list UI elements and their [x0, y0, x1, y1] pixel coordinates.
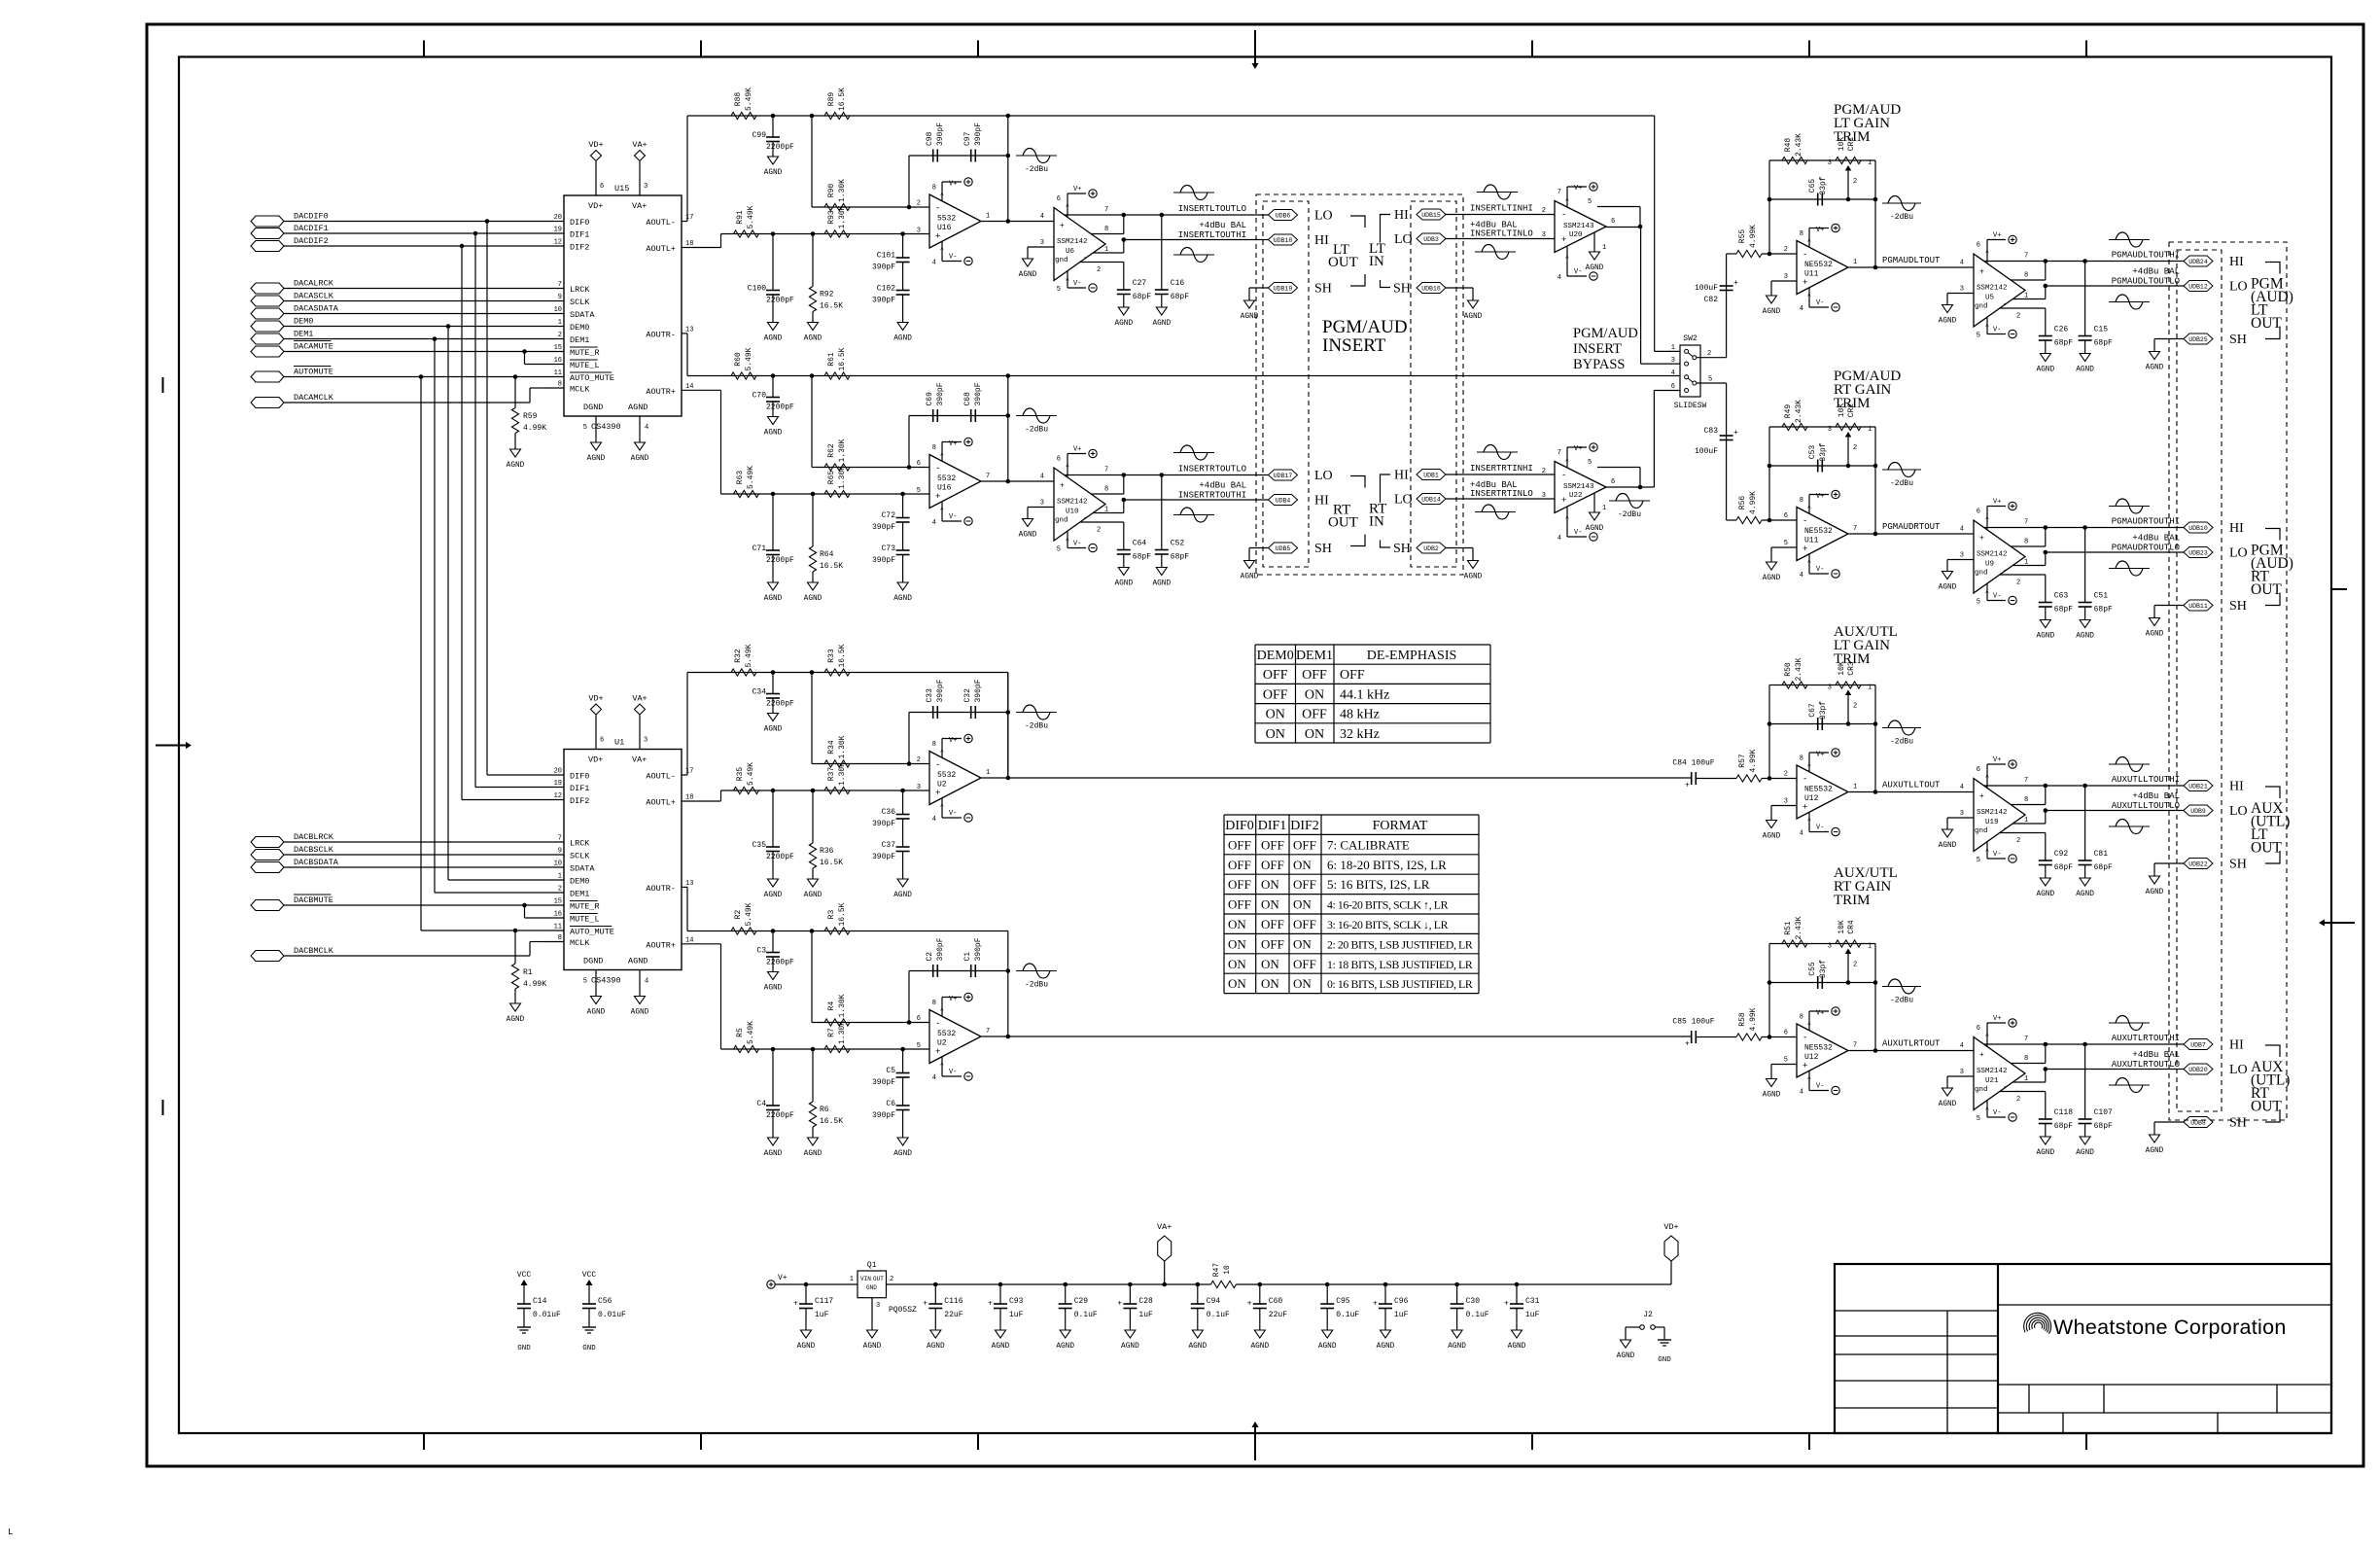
svg-text:R32: R32 [734, 649, 743, 663]
svg-text:4.99K: 4.99K [1749, 749, 1758, 772]
svg-text:2: 20 BITS, LSB JUSTIFIED, LR: 2: 20 BITS, LSB JUSTIFIED, LR [1327, 937, 1473, 951]
svg-text:V+: V+ [949, 181, 957, 189]
svg-text:6: 6 [1611, 218, 1615, 226]
svg-text:AUXUTLLTOUT: AUXUTLLTOUT [1882, 781, 1941, 790]
svg-text:0.1uF: 0.1uF [1336, 1311, 1359, 1319]
svg-text:15: 15 [554, 344, 562, 352]
svg-text:3: 3 [1040, 239, 1044, 247]
svg-text:DEM0: DEM0 [570, 323, 589, 333]
svg-text:C2: C2 [926, 952, 934, 962]
svg-text:2200pF: 2200pF [766, 143, 794, 152]
svg-text:390pF: 390pF [872, 523, 895, 532]
svg-text:+: + [1373, 1300, 1378, 1309]
svg-text:-: - [1802, 516, 1807, 526]
svg-text:PGMAUDRTOUT: PGMAUDRTOUT [1882, 522, 1941, 532]
svg-text:BYPASS: BYPASS [1573, 357, 1625, 372]
svg-text:V-: V- [1993, 851, 2001, 859]
svg-text:+: + [1979, 792, 1984, 801]
svg-text:+4dBu BAL: +4dBu BAL [2132, 534, 2180, 544]
svg-text:68pF: 68pF [1133, 293, 1151, 301]
svg-text:PGM/AUD: PGM/AUD [1322, 317, 1408, 337]
svg-text:+4dBu BAL: +4dBu BAL [1199, 221, 1246, 230]
svg-text:AGND: AGND [893, 335, 912, 343]
svg-text:5.49K: 5.49K [747, 466, 755, 489]
svg-text:AGND: AGND [893, 1150, 912, 1158]
svg-text:DEM1: DEM1 [294, 330, 313, 339]
svg-text:C64: C64 [1133, 540, 1147, 548]
svg-text:19: 19 [554, 227, 562, 234]
svg-text:6: 6 [1977, 509, 1980, 516]
svg-text:OFF: OFF [1228, 858, 1251, 872]
svg-text:>: > [1984, 1033, 1991, 1036]
svg-text:390pF: 390pF [974, 382, 983, 405]
svg-text:11: 11 [554, 924, 562, 931]
svg-text:AOUTL+: AOUTL+ [646, 798, 676, 808]
svg-text:OUT: OUT [873, 1276, 884, 1282]
svg-text:1uF: 1uF [815, 1311, 829, 1319]
svg-text:SCLK: SCLK [570, 298, 590, 307]
svg-text:UDB7: UDB7 [2190, 1042, 2206, 1049]
svg-text:-: - [1561, 471, 1566, 480]
svg-text:6: 6 [917, 460, 921, 468]
svg-text:OFF: OFF [1261, 858, 1284, 872]
svg-text:8: 8 [1800, 497, 1803, 505]
svg-text:INSERTRTINHI: INSERTRTINHI [1470, 464, 1533, 474]
svg-text:8: 8 [2024, 796, 2028, 804]
svg-text:AGND: AGND [804, 892, 822, 899]
svg-text:INSERTRTINLO: INSERTRTINLO [1470, 489, 1533, 499]
svg-text:OFF: OFF [1228, 837, 1251, 852]
svg-text:AGND: AGND [1241, 574, 1259, 581]
svg-text:AGND: AGND [587, 1009, 606, 1017]
svg-text:VA+: VA+ [632, 201, 647, 211]
svg-text:C85 100uF: C85 100uF [1672, 1018, 1714, 1027]
svg-text:CR1: CR1 [1847, 137, 1856, 152]
svg-text:>: > [1806, 1022, 1813, 1026]
svg-text:AGND: AGND [1250, 1343, 1269, 1351]
svg-text:2: 2 [2016, 313, 2020, 321]
svg-text:-2dBu: -2dBu [1025, 165, 1048, 174]
svg-text:AGND: AGND [2076, 891, 2094, 898]
svg-text:AGND: AGND [2146, 889, 2164, 896]
svg-text:7: 7 [558, 281, 562, 289]
svg-text:UDB15: UDB15 [1421, 212, 1441, 219]
svg-text:C56: C56 [598, 1297, 612, 1306]
svg-text:>: > [1564, 255, 1571, 259]
svg-text:-2dBu: -2dBu [1025, 722, 1048, 731]
svg-text:R35: R35 [736, 767, 745, 782]
svg-text:R6: R6 [820, 1106, 829, 1114]
svg-text:390pF: 390pF [872, 263, 895, 272]
svg-text:R89: R89 [827, 92, 836, 107]
svg-text:U10: U10 [1066, 509, 1079, 516]
svg-text:AGND: AGND [2146, 1147, 2164, 1155]
svg-text:AOUTL+: AOUTL+ [646, 244, 676, 254]
svg-text:DGND: DGND [583, 403, 603, 412]
svg-text:1: 1 [1104, 507, 1108, 514]
svg-text:3: 3 [1960, 286, 1964, 294]
svg-text:UDB23: UDB23 [2188, 550, 2208, 557]
svg-text:>: > [1065, 464, 1071, 468]
svg-text:UDB14: UDB14 [1421, 497, 1441, 504]
svg-text:C73: C73 [882, 544, 896, 553]
svg-text:-: - [2003, 1083, 2008, 1092]
svg-text:3: 3 [1784, 273, 1788, 281]
svg-text:AGND: AGND [507, 1016, 525, 1024]
svg-text:+: + [1979, 1051, 1984, 1060]
svg-text:OFF: OFF [1228, 877, 1251, 892]
svg-text:16.5K: 16.5K [820, 562, 843, 571]
svg-text:22uF: 22uF [1269, 1311, 1287, 1319]
svg-text:5: 5 [1977, 857, 1980, 864]
svg-text:OFF: OFF [1293, 877, 1316, 892]
svg-text:>: > [1984, 774, 1991, 778]
svg-text:HI: HI [1394, 469, 1409, 483]
svg-text:>: > [1564, 515, 1571, 519]
svg-text:+: + [1802, 278, 1807, 288]
svg-text:2: 2 [1542, 207, 1546, 215]
svg-text:2: 2 [2016, 1096, 2020, 1104]
svg-text:2: 2 [917, 756, 921, 764]
svg-text:AGND: AGND [2036, 367, 2054, 374]
svg-text:UDB1: UDB1 [1423, 473, 1439, 479]
svg-text:C37: C37 [882, 841, 896, 850]
svg-text:1: 1 [850, 1276, 854, 1283]
svg-text:HI: HI [2229, 780, 2244, 794]
svg-text:100uF: 100uF [1695, 447, 1718, 456]
svg-text:DIF2: DIF2 [570, 796, 589, 806]
svg-text:OFF: OFF [1293, 837, 1316, 852]
svg-text:INSERTLTINHI: INSERTLTINHI [1470, 204, 1533, 214]
svg-text:10: 10 [554, 860, 562, 868]
svg-text:V+: V+ [1073, 186, 1081, 193]
svg-text:0.1uF: 0.1uF [1466, 1311, 1489, 1319]
svg-text:SCLK: SCLK [570, 852, 590, 861]
svg-text:16.5K: 16.5K [820, 859, 843, 867]
svg-text:VD+: VD+ [588, 140, 603, 150]
svg-text:5: 5 [1977, 599, 1980, 607]
svg-text:-2dBu: -2dBu [1890, 738, 1913, 747]
svg-text:AGND: AGND [628, 403, 647, 412]
svg-text:OFF: OFF [1340, 668, 1365, 683]
svg-text:3: 3 [917, 228, 921, 235]
svg-text:LRCK: LRCK [570, 839, 590, 849]
svg-text:INSERTLTOUTHI: INSERTLTOUTHI [1178, 230, 1246, 240]
svg-text:390pF: 390pF [936, 123, 945, 146]
svg-text:68pF: 68pF [2054, 339, 2073, 348]
svg-text:-: - [935, 464, 940, 474]
svg-text:>: > [1806, 818, 1813, 822]
svg-text:>: > [939, 507, 946, 510]
svg-text:>: > [939, 803, 946, 807]
svg-text:C72: C72 [882, 511, 896, 520]
svg-text:DIF1: DIF1 [1258, 819, 1287, 833]
svg-text:OFF: OFF [1261, 837, 1284, 852]
svg-text:3: 3 [1542, 231, 1546, 239]
svg-text:AGND: AGND [1114, 320, 1133, 328]
svg-text:ON: ON [1293, 858, 1312, 872]
svg-text:4: 4 [1040, 213, 1044, 221]
svg-text:C98: C98 [926, 131, 934, 146]
svg-text:V-: V- [1993, 1109, 2001, 1117]
svg-text:+: + [1060, 222, 1065, 230]
svg-text:C118: C118 [2054, 1108, 2073, 1117]
svg-text:68pF: 68pF [1171, 553, 1189, 562]
svg-text:R93: R93 [827, 210, 836, 225]
svg-text:8: 8 [2024, 272, 2028, 280]
svg-text:SH: SH [2229, 1116, 2247, 1131]
svg-text:7: 7 [1104, 206, 1108, 214]
svg-text:2: 2 [1707, 350, 1711, 358]
svg-text:16.5K: 16.5K [838, 88, 847, 111]
svg-text:9: 9 [558, 294, 562, 301]
svg-text:8: 8 [558, 381, 562, 389]
svg-text:8: 8 [2024, 1055, 2028, 1063]
svg-text:2.43K: 2.43K [1795, 400, 1803, 423]
svg-text:C4: C4 [756, 1100, 766, 1108]
svg-text:U2: U2 [937, 1039, 947, 1048]
svg-text:5: 5 [1977, 333, 1980, 340]
svg-text:11: 11 [554, 369, 562, 377]
svg-text:AGND: AGND [587, 455, 606, 463]
svg-text:ON: ON [1293, 897, 1312, 912]
svg-text:V-: V- [1574, 268, 1582, 276]
svg-text:R33: R33 [827, 649, 836, 663]
svg-text:OFF: OFF [1263, 668, 1288, 683]
svg-text:390pF: 390pF [872, 556, 895, 565]
svg-text:AUTOMUTE: AUTOMUTE [294, 368, 333, 377]
svg-text:-: - [2003, 567, 2008, 576]
svg-text:10: 10 [1223, 1265, 1232, 1275]
svg-text:SSM2143: SSM2143 [1563, 483, 1594, 491]
svg-text:>: > [1984, 324, 1991, 328]
svg-text:VA+: VA+ [1157, 1222, 1172, 1232]
svg-text:>: > [1564, 458, 1571, 462]
svg-text:+: + [1802, 1062, 1807, 1071]
svg-text:16: 16 [554, 357, 562, 365]
svg-text:10: 10 [554, 306, 562, 314]
svg-text:3: 3 [1671, 357, 1675, 365]
svg-text:UDB21: UDB21 [2188, 784, 2208, 790]
svg-text:Q1: Q1 [867, 1261, 877, 1270]
svg-text:UDB8: UDB8 [2190, 1120, 2206, 1127]
svg-text:4: 4 [1960, 260, 1964, 267]
svg-text:6: 6 [600, 183, 604, 191]
svg-text:VCC: VCC [517, 1271, 532, 1280]
svg-text:DIF0: DIF0 [570, 772, 589, 782]
svg-text:C14: C14 [533, 1297, 547, 1306]
svg-text:1.30K: 1.30K [838, 179, 847, 202]
svg-text:R37: R37 [827, 767, 836, 782]
svg-text:AGND: AGND [2146, 631, 2164, 639]
svg-text:3: 3 [1828, 426, 1832, 434]
svg-text:AGND: AGND [1939, 1101, 1957, 1108]
svg-text:2200pF: 2200pF [766, 1111, 794, 1120]
svg-text:3: 3 [876, 1302, 880, 1310]
svg-text:8: 8 [1104, 226, 1108, 233]
svg-text:ON: ON [1305, 727, 1324, 742]
svg-text:5: 5 [1057, 546, 1061, 554]
svg-text:+: + [1561, 235, 1566, 245]
svg-text:1: 1 [1853, 259, 1857, 266]
svg-text:V+: V+ [1816, 752, 1824, 759]
svg-text:14: 14 [685, 936, 693, 944]
svg-text:SSM2142: SSM2142 [1977, 1068, 2008, 1075]
svg-text:AGND: AGND [1508, 1343, 1526, 1351]
svg-text:7: 7 [2024, 253, 2028, 261]
svg-text:UDB6: UDB6 [1276, 213, 1291, 220]
svg-text:AGND: AGND [1763, 833, 1781, 841]
svg-text:16.5K: 16.5K [838, 347, 847, 370]
svg-text:OFF: OFF [1228, 897, 1251, 912]
svg-text:6: 6 [1057, 456, 1061, 464]
svg-text:5.49K: 5.49K [747, 205, 755, 228]
svg-text:SH: SH [1314, 282, 1332, 297]
svg-text:V-: V- [1073, 280, 1081, 288]
svg-text:>: > [1806, 559, 1813, 563]
svg-text:5: 5 [1588, 198, 1592, 206]
svg-text:1: 1 [2024, 1075, 2028, 1083]
svg-text:3: 16-20 BITS, SCLK ↓, LR: 3: 16-20 BITS, SCLK ↓, LR [1327, 918, 1449, 931]
svg-text:AGND: AGND [797, 1343, 816, 1351]
svg-text:DIF0: DIF0 [1225, 819, 1254, 833]
svg-text:C34: C34 [752, 688, 767, 697]
svg-text:2: 2 [1784, 771, 1788, 779]
svg-text:U12: U12 [1804, 1053, 1819, 1062]
svg-text:R47: R47 [1212, 1263, 1221, 1278]
svg-text:3: 3 [1784, 798, 1788, 806]
svg-text:C15: C15 [2094, 326, 2109, 334]
svg-text:AGND: AGND [764, 169, 783, 177]
svg-text:R48: R48 [1784, 138, 1793, 153]
svg-text:U16: U16 [937, 484, 952, 493]
svg-text:SSM2142: SSM2142 [1977, 551, 2008, 559]
svg-text:R90: R90 [827, 184, 836, 198]
svg-text:>: > [939, 749, 946, 753]
svg-text:LRCK: LRCK [570, 285, 590, 295]
svg-text:CR3: CR3 [1847, 661, 1856, 676]
svg-text:+: + [935, 789, 940, 798]
svg-text:ON: ON [1261, 877, 1279, 892]
svg-text:V-: V- [1816, 1083, 1824, 1091]
svg-text:C101: C101 [877, 252, 895, 261]
svg-text:AOUTR+: AOUTR+ [646, 940, 676, 950]
svg-text:17: 17 [685, 768, 693, 776]
svg-text:1: 1 [1104, 246, 1108, 254]
svg-text:DEM1: DEM1 [1296, 649, 1333, 663]
svg-text:68pF: 68pF [2094, 606, 2113, 614]
svg-text:UDB4: UDB4 [1276, 498, 1291, 505]
svg-text:2: 2 [558, 332, 562, 339]
svg-text:2: 2 [1853, 962, 1857, 969]
svg-text:8: 8 [932, 185, 936, 193]
svg-text:INSERTLTOUTLO: INSERTLTOUTLO [1178, 204, 1246, 214]
svg-text:SSM2143: SSM2143 [1563, 223, 1594, 230]
svg-text:5: 5 [1977, 1115, 1980, 1123]
svg-text:C99: C99 [752, 131, 767, 140]
svg-text:AGND: AGND [1617, 1352, 1635, 1360]
svg-text:>: > [939, 1007, 946, 1011]
svg-text:0.1uF: 0.1uF [1074, 1311, 1098, 1319]
svg-text:C55: C55 [1808, 962, 1817, 976]
svg-text:3: 3 [1960, 552, 1964, 560]
svg-text:V+: V+ [1993, 232, 2001, 240]
svg-text:DEM1: DEM1 [570, 890, 589, 899]
svg-text:390pF: 390pF [936, 382, 945, 405]
svg-text:OUT: OUT [2251, 315, 2282, 332]
svg-text:R59: R59 [523, 412, 538, 421]
svg-text:5532: 5532 [937, 474, 956, 483]
svg-text:+4dBu BAL: +4dBu BAL [1199, 481, 1246, 491]
svg-text:OUT: OUT [1328, 515, 1358, 531]
svg-text:-2dBu: -2dBu [1025, 981, 1048, 990]
svg-text:-: - [2003, 825, 2008, 833]
svg-text:16.5K: 16.5K [838, 644, 847, 667]
svg-text:C32: C32 [963, 688, 972, 703]
svg-text:U21: U21 [1985, 1077, 1999, 1085]
svg-text:6: 6 [1977, 242, 1980, 250]
svg-text:R61: R61 [827, 352, 836, 367]
svg-text:LO: LO [2229, 546, 2248, 561]
svg-text:C93: C93 [1009, 1297, 1024, 1306]
svg-text:C30: C30 [1466, 1297, 1481, 1306]
svg-text:5: 5 [583, 978, 587, 986]
svg-text:4.99K: 4.99K [1749, 491, 1758, 514]
svg-text:R2: R2 [734, 910, 743, 920]
svg-text:+: + [1733, 429, 1738, 438]
svg-text:SSM2142: SSM2142 [1057, 499, 1088, 507]
svg-text:>: > [939, 1062, 946, 1066]
svg-text:-: - [1561, 210, 1566, 220]
svg-text:DIF0: DIF0 [570, 218, 589, 228]
svg-text:5: 5 [917, 487, 921, 495]
svg-text:ON: ON [1228, 976, 1246, 991]
svg-text:4: 16-20 BITS, SCLK ↑, LR: 4: 16-20 BITS, SCLK ↑, LR [1327, 898, 1449, 912]
svg-text:C5: C5 [886, 1067, 895, 1075]
svg-text:6: 6 [1671, 383, 1675, 391]
svg-text:HI: HI [1394, 208, 1409, 223]
svg-text:VA+: VA+ [632, 140, 647, 150]
svg-text:C27: C27 [1133, 279, 1147, 288]
svg-text:AGND: AGND [2036, 891, 2054, 898]
svg-text:C81: C81 [2094, 850, 2109, 859]
svg-text:gnd: gnd [1055, 517, 1068, 525]
svg-text:+: + [935, 232, 940, 242]
svg-text:UDB24: UDB24 [2188, 259, 2208, 265]
svg-text:DEM1: DEM1 [570, 335, 589, 345]
svg-text:SH: SH [2229, 858, 2247, 872]
svg-text:1: 1 [1868, 943, 1872, 951]
svg-text:10K: 10K [1837, 661, 1846, 676]
svg-text:5532: 5532 [937, 1030, 956, 1038]
svg-text:390pF: 390pF [936, 937, 945, 961]
svg-text:V-: V- [1816, 566, 1824, 574]
svg-text:13: 13 [685, 880, 693, 888]
svg-text:2: 2 [1097, 527, 1101, 535]
svg-text:DIF1: DIF1 [570, 784, 589, 793]
svg-text:UDB5: UDB5 [1276, 545, 1291, 552]
svg-text:-2dBu: -2dBu [1890, 997, 1913, 1005]
svg-text:R56: R56 [1738, 496, 1747, 510]
svg-text:+: + [935, 492, 940, 502]
svg-text:4: 4 [1671, 369, 1675, 377]
svg-text:7: 7 [1557, 189, 1561, 196]
svg-text:7: 7 [558, 835, 562, 843]
svg-text:GND: GND [866, 1284, 877, 1291]
svg-text:C51: C51 [2094, 592, 2109, 601]
svg-text:1: 1 [1853, 784, 1857, 791]
svg-text:R1: R1 [523, 968, 533, 977]
